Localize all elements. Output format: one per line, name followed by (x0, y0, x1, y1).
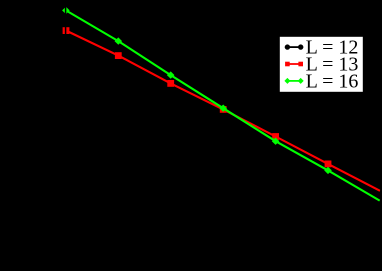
legend entry line L=12 (black) (285, 44, 304, 49)
marker green diamond p4 (219, 105, 227, 112)
marker green diamond p6 (324, 167, 332, 174)
marker green diamond p3 (167, 71, 175, 78)
legend entry line L=13 (red) (285, 62, 303, 67)
legend box (280, 37, 363, 92)
right frame (black, clips line ends) (380, 0, 382, 271)
marker red square p4 (220, 106, 227, 113)
data line L=16 (green series) (66, 10, 380, 200)
marker green diamond p5 (272, 138, 280, 145)
marker green diamond p1 (62, 7, 70, 14)
data line L=13 (red series) (66, 31, 380, 191)
svg-text:L = 16: L = 16 (306, 70, 359, 92)
marker green diamond p2 (115, 37, 123, 44)
legend entry line L=16 (green) (284, 78, 303, 84)
marker red square p1 (63, 27, 70, 34)
marker red square p2 (115, 52, 122, 59)
marker red square p5 (272, 133, 279, 140)
marker red square p6 (325, 161, 332, 168)
y-axis (black frame line over first markers) (65, 0, 67, 271)
marker red square p3 (167, 80, 174, 87)
